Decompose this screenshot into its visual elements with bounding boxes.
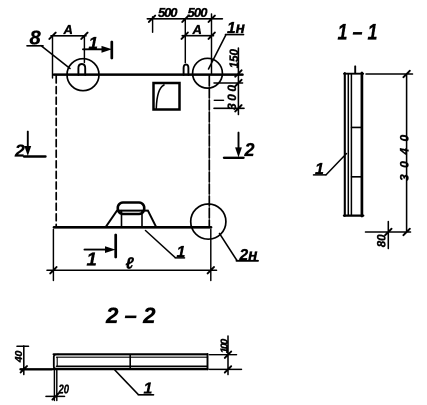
section 2-2 right dim 100 [210, 354, 237, 356]
leader for label 1n [209, 35, 227, 69]
svg-text:40: 40 [13, 350, 25, 363]
bottom anchor inner verticals [121, 211, 123, 228]
plan leader 1 (anchor) [146, 231, 176, 258]
svg-text:2н: 2н [239, 247, 259, 264]
svg-text:1: 1 [144, 381, 153, 398]
panel top edge [54, 73, 243, 76]
svg-text:100: 100 [218, 339, 230, 354]
section 2-2 dim 20 [53, 370, 55, 401]
svg-text:150: 150 [229, 49, 241, 69]
panel right edge [208, 76, 210, 226]
section 1-1 panel [344, 73, 346, 216]
svg-text:A: A [63, 22, 73, 37]
section 2-2 slab lines [54, 353, 208, 355]
bottom dim L line [47, 269, 217, 271]
svg-text:ℓ: ℓ [126, 256, 135, 273]
svg-text:1: 1 [177, 244, 186, 261]
section mark 2 right [238, 133, 240, 151]
section 1-1 height dim [366, 73, 413, 75]
detail circle top-left [67, 59, 99, 91]
panel bottom edge [54, 226, 211, 229]
svg-text:500: 500 [188, 5, 209, 20]
opening corner curve [156, 85, 164, 108]
section 2-2 right end [207, 354, 209, 369]
section 1-1 dim 80 [387, 222, 389, 249]
svg-text:2: 2 [14, 140, 25, 160]
dim A right line [182, 35, 213, 37]
detail circle bottom-right [191, 204, 226, 239]
leader for label 8 [41, 46, 70, 69]
svg-text:8: 8 [30, 27, 42, 49]
svg-text:20: 20 [58, 383, 69, 397]
svg-text:1н: 1н [227, 20, 246, 37]
right vertical dim 150/300 [237, 48, 239, 115]
svg-text:1: 1 [89, 34, 98, 53]
svg-text:1 – 1: 1 – 1 [338, 20, 378, 45]
section 1-1 rungs [351, 126, 361, 128]
section 2-2 middle joint [129, 354, 131, 369]
dim 500/500 line [147, 18, 222, 20]
panel left edge (hidden, dashed) [55, 76, 57, 226]
bottom dim L extensions [52, 230, 54, 281]
detail circle top-right [193, 58, 223, 88]
dim 500 extension lines [152, 17, 154, 33]
svg-text:2: 2 [244, 140, 255, 160]
dim A left line [51, 35, 86, 37]
svg-text:300: 300 [225, 82, 239, 110]
svg-text:1: 1 [315, 161, 324, 178]
section mark 1 bottom [85, 249, 111, 251]
section 2-2 left end cap [54, 354, 59, 369]
svg-text:2 – 2: 2 – 2 [105, 303, 156, 328]
section mark 1 top: line+arrow+flag [83, 48, 107, 50]
bottom anchor loop arch [118, 203, 144, 215]
right dim extension lines [214, 82, 243, 84]
svg-text:1: 1 [87, 249, 97, 270]
section 2-2 leader 1 [115, 370, 139, 395]
svg-text:500: 500 [158, 5, 178, 20]
lifting loop right (plan) [184, 65, 189, 75]
section 1-1 leader 1 [314, 174, 327, 176]
bottom anchor detail: trapezoid [106, 211, 157, 228]
section 2-2 left dim 40 [23, 346, 25, 375]
dim A extensions [52, 36, 54, 78]
opening square [154, 83, 180, 110]
svg-text:A: A [192, 22, 202, 37]
svg-text:80: 80 [377, 234, 389, 247]
section 1-1 inner face lines [347, 74, 349, 215]
lifting loop left (plan) [78, 64, 85, 75]
section mark 2 left [27, 132, 29, 150]
section 1-1 top tick [354, 66, 356, 73]
svg-text:3040: 3040 [398, 128, 412, 181]
leader for label 2n [220, 234, 238, 261]
